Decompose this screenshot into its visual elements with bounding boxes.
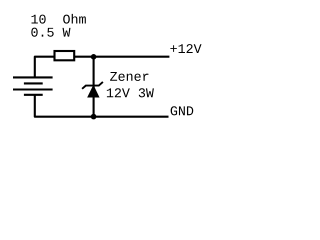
wire zener branch vertical <box>93 57 95 117</box>
zener diode D1 anode triangle <box>88 86 99 97</box>
resistor R1 body <box>55 51 75 60</box>
battery B1 plate short (negative, bottom) <box>24 94 43 96</box>
label R1 rating "0.5 W" <box>31 28 70 37</box>
wire battery negative to bottom rail and GND terminal <box>35 95 169 117</box>
net label GND <box>171 106 194 115</box>
label D1 value "12V 3W" <box>107 88 154 97</box>
zener diode D1 cathode bar with bent ends <box>82 82 103 89</box>
battery B1 plate short <box>24 82 43 84</box>
node junction bottom <box>91 114 97 120</box>
label D1 name "Zener" <box>110 72 148 81</box>
node junction top <box>91 54 97 60</box>
battery B1 plate long (positive, top) <box>13 76 53 78</box>
label R1 value "10 Ohm" <box>31 14 85 24</box>
battery B1 plate long <box>13 88 53 90</box>
wire top rail from battery + through resistor to +12V terminal <box>35 57 170 78</box>
net label +12V <box>170 44 201 53</box>
